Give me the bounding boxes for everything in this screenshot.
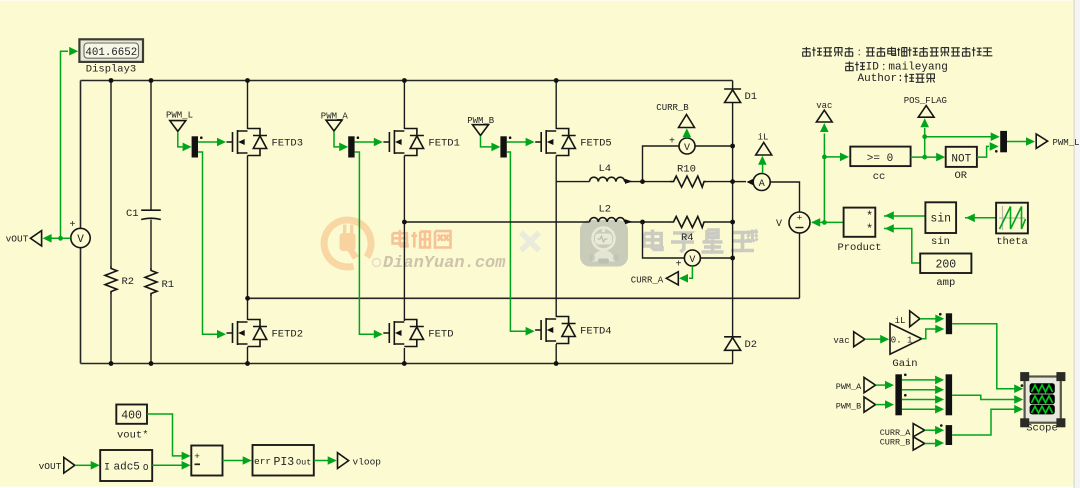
- diode D1: [724, 89, 757, 103]
- svg-text:PI3: PI3: [274, 456, 295, 469]
- svg-text:+: +: [675, 260, 681, 271]
- port CURR_A: [631, 272, 679, 286]
- wire D1 D2 vertical: [732, 81, 734, 364]
- svg-text:+: +: [69, 220, 75, 231]
- wire CURR_A to bar3: [925, 426, 944, 435]
- svg-text:CURR_A: CURR_A: [631, 275, 664, 285]
- wire gain to mux1: [922, 325, 945, 339]
- wire leg3 vertical FETD5 FETD4: [555, 81, 557, 364]
- mux bar iL vac: [939, 313, 952, 334]
- svg-text:amp: amp: [936, 277, 955, 289]
- junction top bus C1: [149, 78, 154, 83]
- wire bar3 to scope row3: [952, 405, 1023, 435]
- svg-text:V: V: [684, 143, 690, 154]
- svg-text:FETD5: FETD5: [580, 138, 612, 150]
- port PWM_A input: [321, 111, 349, 131]
- svg-text:FETD1: FETD1: [428, 138, 460, 150]
- svg-text:R2: R2: [122, 276, 135, 288]
- wire vac down to comparator and product output node: [820, 123, 849, 225]
- port POS_FLAG: [904, 96, 947, 117]
- svg-text:L2: L2: [599, 204, 612, 216]
- svg-text:I: I: [104, 463, 110, 474]
- svg-text:D1: D1: [745, 91, 758, 103]
- inductor L4: [590, 163, 633, 184]
- block sin: [925, 202, 956, 248]
- source V controlled: [776, 212, 810, 233]
- resistor R4: [670, 217, 706, 245]
- svg-text:CURR_A: CURR_A: [880, 428, 912, 438]
- resistor R1: [145, 268, 174, 296]
- block PI3: [253, 445, 314, 476]
- wire CURR_B sensor left: [643, 146, 680, 182]
- header text line2 weixin id: [845, 61, 853, 70]
- svg-text:cc: cc: [873, 171, 886, 183]
- wire CURR_A sensor left: [643, 222, 685, 258]
- junction sensor D1 line: [730, 144, 735, 149]
- wire to POS_FLAG: [920, 118, 929, 137]
- ammeter A: [753, 174, 770, 191]
- svg-text:V: V: [77, 234, 84, 246]
- svg-text:PWM_B: PWM_B: [836, 402, 862, 412]
- wire CURR_B to bar3: [925, 439, 944, 448]
- block Gain 0.1: [890, 323, 922, 370]
- resistor R10: [670, 164, 706, 188]
- svg-text:ID: ID: [866, 61, 880, 73]
- mux bar curr: [940, 424, 952, 445]
- svg-text:sin: sin: [930, 213, 951, 226]
- svg-text:PWM_L: PWM_L: [166, 111, 193, 121]
- junction bottom bus R2: [109, 361, 114, 366]
- transistor FETD5: [535, 129, 612, 156]
- svg-text:401.6652: 401.6652: [85, 47, 137, 59]
- port iL top: [756, 133, 772, 156]
- wire PI3 to vloop: [314, 456, 337, 465]
- wire CURR_B sensor right: [695, 145, 733, 147]
- wire L4 row: [556, 181, 732, 183]
- wire PWM_A to driver: [334, 132, 348, 152]
- svg-text:O: O: [143, 463, 148, 473]
- wire L2 row: [404, 221, 732, 223]
- wire bottom bus: [81, 363, 734, 365]
- svg-text:+: +: [194, 451, 200, 462]
- transistor FETD1: [383, 129, 460, 156]
- svg-text:iL: iL: [758, 133, 769, 143]
- junction bottom bus R1: [149, 361, 154, 366]
- svg-text:*: *: [866, 222, 873, 236]
- wire PWM_A to bar: [876, 381, 894, 390]
- wire PWM_L to driver: [178, 132, 192, 151]
- transistor FETD: [383, 320, 453, 347]
- port CURR_A bottom: [880, 424, 925, 438]
- svg-text:OR: OR: [954, 170, 967, 182]
- header text line1 weixin gongzhonghao: [802, 47, 810, 56]
- port PWM_L input: [166, 111, 193, 132]
- mux bar pwm right: [946, 374, 953, 415]
- svg-text:vloop: vloop: [353, 456, 382, 467]
- wire mux to PWM_L port: [1007, 137, 1035, 146]
- diode D2: [724, 337, 757, 351]
- svg-text:NOT: NOT: [951, 154, 971, 166]
- watermark text dianyuanwang: [393, 230, 408, 246]
- junction top bus leg3: [554, 78, 559, 83]
- wire mid bus (leg1 midpoint to right rail): [248, 297, 800, 299]
- svg-text:Product: Product: [837, 242, 881, 254]
- wire adc5 to summer: [152, 461, 190, 470]
- svg-text:R10: R10: [677, 164, 696, 176]
- svg-text:vac: vac: [833, 336, 849, 346]
- svg-text:Out: Out: [296, 457, 311, 467]
- block Product: [837, 208, 881, 254]
- junction mid bus leg1 midpoint: [245, 296, 250, 301]
- wire A to iL: [758, 156, 767, 173]
- svg-text:Display3: Display3: [86, 64, 136, 76]
- svg-text:+: +: [797, 213, 803, 224]
- block comparator cc: [850, 147, 910, 183]
- port CURR_B: [656, 103, 694, 128]
- svg-text:FETD2: FETD2: [272, 329, 304, 341]
- port PWM_B bottom: [836, 397, 876, 412]
- svg-text:PWM_L: PWM_L: [1053, 138, 1080, 148]
- svg-text:C1: C1: [126, 208, 139, 220]
- wire to ammeter: [733, 181, 746, 183]
- svg-text:Gain: Gain: [892, 358, 917, 370]
- wire product output to V source: [811, 218, 843, 227]
- wire driver to top gate: [198, 138, 226, 147]
- wire mux1 to scope row1: [952, 324, 1023, 393]
- wire 400 to summer: [147, 414, 191, 460]
- wire R2 branch: [110, 81, 112, 364]
- wire pwm bar to bar2: [902, 395, 944, 404]
- port vac top: [816, 101, 832, 122]
- transistor FETD4: [535, 317, 612, 344]
- wire iL to mux1: [920, 315, 944, 324]
- wire driver to top gate: [507, 138, 535, 147]
- wire pwm bar to bar2: [902, 376, 944, 385]
- wire PWM_B to bar: [876, 400, 894, 409]
- svg-text:0. 1: 0. 1: [891, 335, 913, 345]
- watermark registered mark: [373, 259, 381, 267]
- svg-text:err: err: [254, 456, 271, 467]
- svg-text:vout*: vout*: [117, 429, 149, 441]
- svg-text:maileyang: maileyang: [888, 61, 947, 73]
- svg-text:FETD: FETD: [428, 329, 453, 341]
- demux bar pwm left: [895, 374, 906, 416]
- svg-text:200: 200: [935, 259, 956, 272]
- block theta sawtooth: [996, 203, 1028, 248]
- wire pwm bar to bar2: [902, 405, 944, 414]
- wire vOUT to adc5: [75, 461, 100, 470]
- wire driver to bottom gate: [198, 152, 226, 339]
- svg-text:>= 0: >= 0: [867, 153, 893, 165]
- wire C1 R1 branch: [150, 81, 152, 364]
- wire vac to gain: [865, 335, 889, 344]
- junction L2 sense: [640, 220, 645, 225]
- voltmeter CURR_B sensor: [669, 137, 695, 155]
- svg-text:Author:: Author:: [858, 73, 904, 85]
- svg-text:+: +: [669, 137, 675, 148]
- junction bottom bus leg3: [554, 361, 559, 366]
- wire top bus: [81, 80, 733, 82]
- watermark x divider: [521, 233, 539, 251]
- watermark robot icon: [580, 220, 628, 267]
- inductor L2: [590, 204, 633, 225]
- junction L2 left: [402, 220, 407, 225]
- svg-text:sin: sin: [931, 236, 950, 248]
- transistor FETD3: [227, 129, 304, 156]
- display Display3: [79, 39, 143, 75]
- wire NOT to mux: [977, 142, 999, 157]
- constant 200 amp: [920, 254, 971, 290]
- scope block: [1020, 372, 1065, 434]
- svg-text:vOUT: vOUT: [6, 234, 29, 245]
- port PWM_A bottom: [836, 377, 876, 392]
- wire 200 to product: [884, 224, 920, 263]
- svg-text:CURR_B: CURR_B: [656, 103, 689, 113]
- svg-text:A: A: [759, 179, 765, 190]
- wire pwm bar to bar2: [902, 385, 944, 394]
- svg-text:D2: D2: [745, 339, 758, 351]
- voltmeter vout probe: [69, 220, 90, 248]
- wire leg2 vertical FETD1 FETD: [403, 81, 405, 364]
- wire right rail A meter to V source to mid bus: [770, 182, 799, 298]
- svg-text:DianYuan.com: DianYuan.com: [383, 254, 506, 273]
- svg-text:V: V: [689, 255, 695, 266]
- port vOUT bottom: [39, 457, 75, 473]
- junction bottom bus leg2: [402, 361, 407, 366]
- port vac bottom: [833, 332, 865, 347]
- svg-text:L4: L4: [599, 163, 612, 175]
- mux bar PWM_L: [995, 131, 1007, 153]
- port CURR_B bottom: [880, 437, 925, 450]
- junction top bus R2: [109, 78, 114, 83]
- port PWM_B input: [467, 116, 495, 136]
- capacitor C1: [126, 208, 161, 220]
- constant 400 vout*: [116, 405, 148, 442]
- svg-text:adc5: adc5: [114, 462, 140, 474]
- wire V to CURR_A: [679, 266, 692, 283]
- gate driver bar PWM_L: [192, 136, 203, 157]
- svg-text:PWM_A: PWM_A: [836, 382, 862, 392]
- wire leg1 vertical FETD3 FETD2: [247, 81, 249, 364]
- wire left rail: [80, 81, 82, 364]
- junction top bus leg1: [245, 78, 250, 83]
- port iL bottom: [895, 311, 920, 327]
- svg-text:V: V: [776, 219, 782, 230]
- gate driver bar PWM_B: [500, 136, 511, 157]
- svg-text:vOUT: vOUT: [39, 461, 62, 472]
- transistor FETD2: [227, 320, 304, 347]
- ammeter direction arrow: [747, 179, 754, 186]
- block summer: [191, 446, 222, 476]
- block NOT OR: [946, 147, 977, 182]
- svg-text:Scope: Scope: [1026, 423, 1058, 435]
- wire PWM_B to driver: [481, 136, 501, 151]
- svg-text:iL: iL: [895, 316, 906, 326]
- svg-text:theta: theta: [996, 236, 1028, 248]
- svg-text:R1: R1: [162, 279, 175, 291]
- wire CURR_A sensor right: [700, 257, 732, 259]
- voltmeter CURR_A sensor: [675, 250, 700, 271]
- wire driver to bottom gate: [507, 152, 535, 336]
- wire driver to bottom gate: [355, 152, 383, 339]
- junction L4 sense: [640, 179, 645, 184]
- gate driver bar PWM_A: [348, 136, 359, 157]
- svg-text:*: *: [866, 210, 873, 224]
- watermark DianYuan plug icon: [340, 225, 360, 260]
- wire probe to vOUT and display: [43, 47, 79, 243]
- port vloop: [338, 453, 382, 469]
- wire V to CURR_B: [683, 128, 692, 138]
- watermark DianYuan logo ring: [324, 220, 371, 267]
- port vOUT left: [6, 231, 42, 246]
- junction top bus leg2: [402, 78, 407, 83]
- svg-text:FETD3: FETD3: [272, 138, 304, 150]
- watermark text dianzixingqiu: [644, 230, 662, 250]
- wire summer to PI3: [223, 456, 252, 465]
- wire theta to sin: [965, 214, 996, 223]
- junction sensor D2 line: [730, 256, 735, 261]
- svg-text:R4: R4: [681, 232, 694, 244]
- svg-text:CURR_B: CURR_B: [880, 437, 911, 447]
- junction bottom bus leg1: [245, 361, 250, 366]
- svg-text:POS_FLAG: POS_FLAG: [904, 96, 947, 106]
- port PWM_L output: [1036, 134, 1079, 149]
- svg-text:400: 400: [121, 410, 142, 423]
- junction R10 right: [730, 179, 735, 184]
- wire sin to product: [884, 211, 925, 220]
- resistor R2: [105, 266, 134, 294]
- wire bar2 to scope row2: [952, 395, 1023, 404]
- junction R4 right: [730, 220, 735, 225]
- svg-text:FETD4: FETD4: [580, 326, 612, 338]
- wire comparator to NOT and POS_FLAG tap: [911, 132, 1000, 161]
- wire driver to top gate: [355, 138, 383, 147]
- block adc5: [100, 450, 152, 481]
